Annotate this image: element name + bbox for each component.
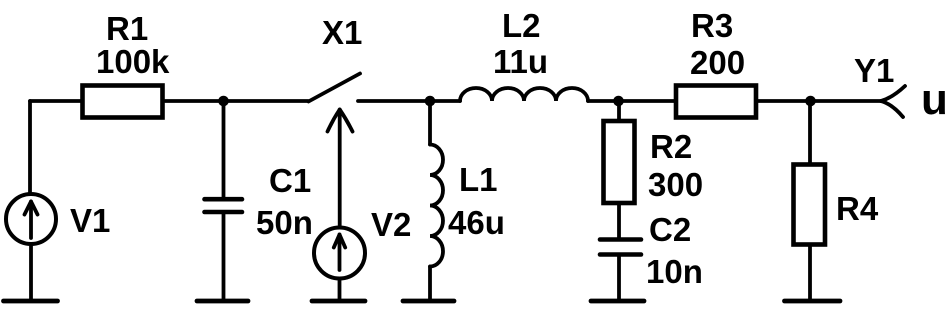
ground (L1) [403,299,454,304]
svg-text:200: 200 [690,44,745,81]
svg-text:C1: C1 [269,162,311,199]
svg-text:R2: R2 [650,128,692,165]
resistor R2 [604,101,635,203]
svg-text:V1: V1 [70,202,110,239]
capacitor C2 [600,203,641,299]
svg-text:Y1: Y1 [854,52,894,89]
probe Y1 [881,86,905,117]
ground (R4) [785,299,841,304]
ground (V1) [4,299,58,304]
svg-text:11u: 11u [493,43,548,80]
wire: switch right contact to L1 node [358,99,460,103]
svg-text:10n: 10n [646,253,703,290]
svg-text:100k: 100k [96,43,170,80]
inductor L1 [430,101,443,299]
resistor R1 [83,86,163,118]
node junction at C1 tap [218,96,229,107]
svg-text:u: u [921,75,948,124]
wire: R1 right to switch left contact [165,99,308,103]
node junction at L1 tap [425,96,436,107]
ground (C2) [591,299,644,304]
wire: V1 top corner to R1 left [30,99,82,103]
svg-text:R3: R3 [691,7,733,44]
svg-text:V2: V2 [371,206,411,243]
ground (V2) [312,299,365,304]
svg-text:X1: X1 [322,14,362,51]
svg-text:300: 300 [648,166,703,203]
resistor R3 [676,86,756,118]
node junction at R2 tap [613,96,624,107]
ground (C1) [197,299,248,304]
svg-text:50n: 50n [256,204,313,241]
inductor L2 [460,88,588,101]
source V1 [6,194,56,299]
wire: V1 vertical drop to source circle [28,101,32,193]
svg-text:R4: R4 [836,190,879,227]
svg-text:R1: R1 [106,10,148,47]
capacitor C1 [205,101,243,299]
resistor R4 [794,101,826,299]
wire: L2 right to R3 left [588,99,676,103]
source V2 [314,228,365,300]
wire: R3 right to output probe [756,99,881,103]
source V2 control arrow [328,110,353,228]
node junction at R4 tap [805,96,816,107]
switch X1 blade [309,74,361,102]
svg-text:C2: C2 [649,211,691,248]
svg-text:L1: L1 [459,161,498,198]
svg-text:L2: L2 [502,7,541,44]
svg-text:46u: 46u [448,204,505,241]
